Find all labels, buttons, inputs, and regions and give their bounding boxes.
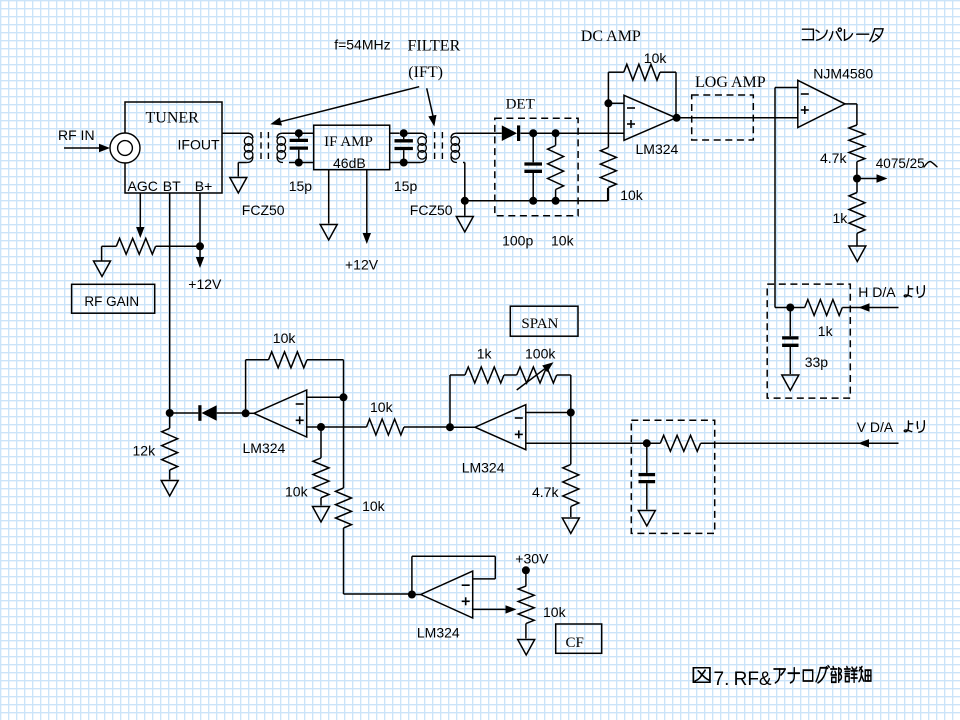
svg-text:10k: 10k <box>644 50 668 66</box>
svg-text:1k: 1k <box>833 210 849 226</box>
svg-text:+12V: +12V <box>188 276 222 292</box>
svg-text:LOG AMP: LOG AMP <box>695 74 766 91</box>
svg-text:LM324: LM324 <box>417 625 460 641</box>
svg-text:FILTER: FILTER <box>408 38 461 55</box>
svg-text:H D/A: H D/A <box>858 284 896 300</box>
svg-text:(IFT): (IFT) <box>408 64 443 81</box>
svg-text:10k: 10k <box>543 604 567 620</box>
svg-text:RF IN: RF IN <box>58 127 95 143</box>
svg-text:IF AMP: IF AMP <box>324 134 373 150</box>
svg-text:15p: 15p <box>394 178 418 194</box>
svg-text:BT: BT <box>163 178 181 194</box>
svg-text:FCZ50: FCZ50 <box>410 202 453 218</box>
svg-text:NJM4580: NJM4580 <box>813 66 873 82</box>
svg-text:100k: 100k <box>525 346 556 362</box>
svg-text:10k: 10k <box>620 187 644 203</box>
svg-text:1k: 1k <box>818 323 834 339</box>
svg-text:33p: 33p <box>805 354 829 370</box>
svg-text:f=54MHz: f=54MHz <box>334 37 390 53</box>
svg-text:10k: 10k <box>362 498 386 514</box>
svg-text:B+: B+ <box>195 178 213 194</box>
svg-text:12k: 12k <box>133 443 157 459</box>
svg-text:AGC: AGC <box>128 178 158 194</box>
svg-text:4075/25: 4075/25 <box>876 156 925 171</box>
svg-text:RF GAIN: RF GAIN <box>84 294 139 309</box>
svg-text:V D/A: V D/A <box>857 419 894 435</box>
svg-text:10k: 10k <box>551 233 575 249</box>
svg-text:TUNER: TUNER <box>146 110 200 127</box>
svg-text:7.: 7. <box>714 669 730 690</box>
svg-text:10k: 10k <box>285 484 309 500</box>
svg-text:10k: 10k <box>273 330 297 346</box>
svg-text:IFOUT: IFOUT <box>178 137 220 153</box>
svg-text:LM324: LM324 <box>243 440 286 456</box>
svg-text:CF: CF <box>566 635 584 651</box>
svg-text:4.7k: 4.7k <box>532 484 559 500</box>
svg-text:10k: 10k <box>370 399 394 415</box>
svg-text:+12V: +12V <box>345 257 379 273</box>
svg-text:46dB: 46dB <box>333 155 366 171</box>
svg-text:DC AMP: DC AMP <box>581 28 641 45</box>
svg-text:+30V: +30V <box>515 551 549 567</box>
svg-text:100p: 100p <box>502 233 533 249</box>
svg-text:DET: DET <box>506 97 535 113</box>
svg-text:SPAN: SPAN <box>521 316 558 332</box>
svg-text:LM324: LM324 <box>462 460 505 476</box>
svg-text:1k: 1k <box>477 346 493 362</box>
svg-text:FCZ50: FCZ50 <box>242 202 285 218</box>
svg-text:RF&: RF& <box>734 669 772 690</box>
svg-text:LM324: LM324 <box>636 141 679 157</box>
svg-text:15p: 15p <box>289 178 313 194</box>
svg-text:4.7k: 4.7k <box>820 150 847 166</box>
